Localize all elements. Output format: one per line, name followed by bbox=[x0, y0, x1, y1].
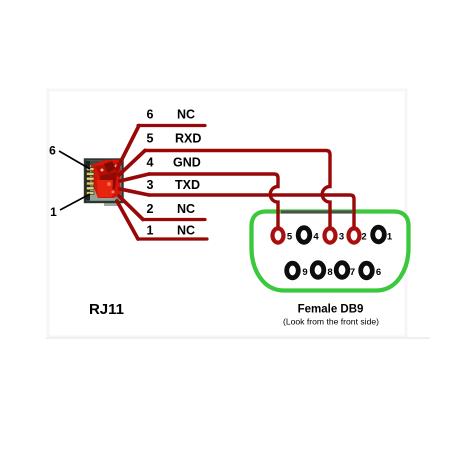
svg-text:TXD: TXD bbox=[175, 178, 200, 192]
DB9 pin 5 bbox=[273, 228, 293, 242]
RJ11 connector body bbox=[85, 160, 123, 207]
svg-text:6: 6 bbox=[376, 267, 381, 278]
svg-text:6: 6 bbox=[49, 144, 56, 158]
faint bottom artifact line bbox=[46, 337, 430, 339]
label 1 (RJ11 pin 1 pointer) bbox=[50, 194, 90, 219]
pin 3 TXD wire bbox=[147, 178, 354, 227]
RJ11 internal red wires bbox=[91, 160, 121, 199]
faint image frame bbox=[48, 90, 406, 337]
label 6 (RJ11 pin 6 pointer) bbox=[49, 144, 90, 170]
RJ11 contact pins bbox=[87, 168, 95, 195]
svg-text:2: 2 bbox=[147, 202, 154, 216]
svg-text:3: 3 bbox=[147, 178, 154, 192]
svg-text:4: 4 bbox=[147, 156, 154, 170]
pin 6 NC wire bbox=[138, 108, 205, 126]
DB9 pin 1 bbox=[373, 227, 393, 242]
DB9 shell bbox=[252, 212, 409, 291]
svg-text:GND: GND bbox=[173, 156, 201, 170]
svg-text:RJ11: RJ11 bbox=[89, 301, 124, 318]
svg-text:8: 8 bbox=[327, 267, 332, 278]
svg-text:(Look from the front side): (Look from the front side) bbox=[283, 317, 379, 327]
svg-text:4: 4 bbox=[313, 232, 319, 243]
DB9 pin 7 bbox=[336, 263, 355, 278]
DB9 pin 3 bbox=[325, 228, 345, 242]
DB9 pin 6 bbox=[361, 263, 381, 278]
wire fan from RJ11 bbox=[117, 126, 149, 240]
svg-text:6: 6 bbox=[147, 108, 154, 122]
pin 4 GND wire bbox=[147, 156, 278, 228]
DB9 pin 8 bbox=[312, 263, 332, 278]
gray bar on DB9 top edge bbox=[281, 211, 352, 214]
pin 2 NC wire bbox=[143, 202, 205, 220]
svg-text:7: 7 bbox=[350, 267, 355, 278]
svg-text:NC: NC bbox=[177, 202, 195, 216]
svg-text:NC: NC bbox=[177, 108, 195, 122]
DB9 pin 2 bbox=[349, 228, 367, 242]
pin 1 NC wire bbox=[138, 224, 207, 240]
svg-text:NC: NC bbox=[177, 224, 195, 238]
svg-text:Female DB9: Female DB9 bbox=[298, 304, 364, 316]
svg-text:1: 1 bbox=[50, 205, 57, 219]
svg-text:2: 2 bbox=[361, 232, 366, 243]
svg-text:9: 9 bbox=[302, 267, 307, 278]
pin 5 RXD wire bbox=[144, 132, 330, 228]
DB9 pin 9 bbox=[287, 263, 308, 278]
svg-text:3: 3 bbox=[339, 232, 344, 243]
svg-text:5: 5 bbox=[147, 132, 154, 146]
svg-text:RXD: RXD bbox=[175, 132, 201, 146]
svg-text:1: 1 bbox=[147, 224, 154, 238]
svg-text:1: 1 bbox=[387, 232, 393, 243]
DB9 pin 4 bbox=[298, 228, 319, 243]
svg-text:5: 5 bbox=[287, 232, 293, 243]
